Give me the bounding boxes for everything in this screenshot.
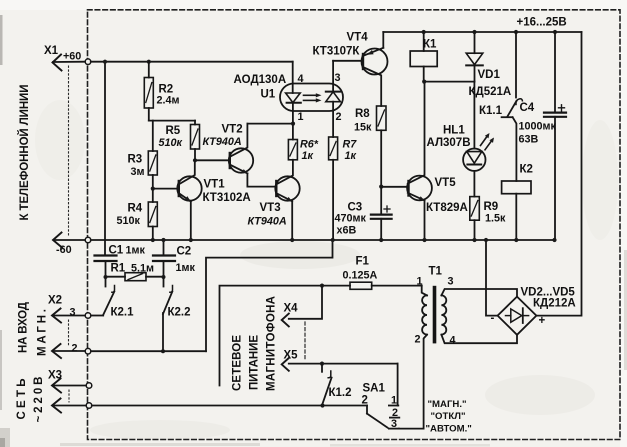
capacitor C2 top lead bbox=[163, 240, 165, 255]
node C4 on rail end bbox=[552, 238, 556, 242]
svg-text:X4: X4 bbox=[284, 303, 299, 315]
diode VD1 bottom lead bbox=[474, 65, 476, 81]
wire riser X2.2 to common bbox=[206, 240, 333, 351]
resistor R6* body bbox=[288, 140, 297, 160]
resistor R2 top lead bbox=[148, 62, 150, 78]
wire K1 to VD1/HL1 bbox=[424, 81, 474, 83]
switch SA1 common pin2 tick bbox=[366, 406, 368, 414]
resistor R7 bottom lead bbox=[332, 160, 334, 240]
resistor R1 body bbox=[125, 273, 146, 281]
svg-text:VT1: VT1 bbox=[204, 179, 226, 191]
transistor VT5 emitter bbox=[408, 193, 425, 201]
connector X1 pin -60 arrow bbox=[53, 233, 62, 248]
transformer T1 secondary winding bbox=[441, 295, 446, 334]
svg-text:510к: 510к bbox=[117, 215, 141, 227]
svg-text:R4: R4 bbox=[128, 203, 143, 215]
resistor R3 top lead bbox=[152, 121, 154, 151]
svg-text:К ТЕЛЕФОННОЙ ЛИНИИ: К ТЕЛЕФОННОЙ ЛИНИИ bbox=[18, 85, 31, 221]
svg-text:С2: С2 bbox=[177, 246, 192, 258]
relay contact K1.1 bottom tick bbox=[502, 116, 513, 118]
relay contact K2.2 fixed hook bbox=[170, 286, 173, 293]
node VT5 emitter on rail bbox=[422, 238, 426, 242]
optocoupler U1 pin2 lead bbox=[332, 102, 334, 137]
svg-text:4: 4 bbox=[298, 73, 304, 85]
resistor R3 body bbox=[148, 151, 157, 175]
svg-text:R9: R9 bbox=[484, 201, 499, 213]
transistor VT3 emitter bbox=[277, 193, 292, 201]
diode VD1 top lead bbox=[474, 32, 476, 53]
wire +60 rail bbox=[91, 61, 293, 63]
svg-text:КТ3102А: КТ3102А bbox=[203, 192, 251, 204]
node C4 top on +16 rail bbox=[553, 30, 557, 34]
connector X2 pin 2 arrow bbox=[52, 344, 61, 358]
svg-text:1мк: 1мк bbox=[126, 245, 146, 257]
svg-text:3: 3 bbox=[335, 72, 341, 84]
capacitor C4 plates bbox=[544, 111, 566, 113]
LED HL1 top lead bbox=[473, 82, 475, 149]
capacitor C3 polarity plus bbox=[384, 208, 390, 210]
resistor R2 bottom lead bbox=[148, 108, 150, 121]
svg-text:SA1: SA1 bbox=[363, 383, 386, 395]
svg-text:VT2: VT2 bbox=[222, 124, 243, 136]
svg-text:510к: 510к bbox=[159, 137, 183, 149]
node VT3 emitter on -60 rail bbox=[290, 238, 294, 242]
capacitor C4 top lead bbox=[554, 32, 556, 112]
relay contact K2.2 bottom lead bbox=[162, 313, 164, 351]
resistor R7 body bbox=[329, 137, 338, 160]
wire VT1 base bbox=[153, 188, 178, 190]
transformer T1 pin4 wire to bridge bbox=[441, 335, 517, 344]
node R5/VT1 collector/VT2 base bbox=[193, 158, 197, 162]
node VT1 emitter on -60 rail bbox=[189, 238, 193, 242]
transistor VT2 circle bbox=[229, 148, 253, 172]
svg-text:X1: X1 bbox=[44, 45, 59, 57]
svg-text:VT5: VT5 bbox=[435, 177, 457, 189]
resistor R8 body bbox=[377, 106, 387, 130]
svg-text:3: 3 bbox=[448, 276, 454, 288]
svg-text:С4: С4 bbox=[520, 102, 535, 114]
svg-text:15к: 15к bbox=[354, 122, 372, 134]
relay K2 bottom lead bbox=[515, 194, 517, 240]
cable dotted line X3 bbox=[68, 390, 70, 402]
svg-text:2.4м: 2.4м bbox=[157, 95, 180, 107]
svg-text:К2.2: К2.2 bbox=[168, 307, 191, 319]
node C3 on rail bbox=[379, 238, 383, 242]
svg-text:1к: 1к bbox=[345, 150, 357, 162]
svg-text:X3: X3 bbox=[48, 370, 62, 382]
resistor R1 right lead bbox=[146, 276, 164, 278]
transformer T1 pin2 lead bbox=[424, 335, 427, 429]
switch SA1 pin2 tick bbox=[390, 417, 399, 419]
node K2 on rail bbox=[514, 238, 518, 242]
svg-text:МАГН.: МАГН. bbox=[37, 309, 49, 356]
relay contact K1.2 fixed hook bbox=[328, 371, 331, 378]
wire X1 +60 to border bbox=[53, 61, 85, 63]
transistor VT2 collector bbox=[230, 124, 247, 157]
optocoupler U1 LED triangle bbox=[286, 93, 301, 103]
svg-text:R6*: R6* bbox=[300, 139, 319, 151]
svg-text:-: - bbox=[491, 313, 495, 325]
wire -60 rail bbox=[91, 239, 555, 241]
svg-text:х6В: х6В bbox=[337, 225, 357, 237]
svg-text:3м: 3м bbox=[131, 166, 145, 178]
terminal circle X1 -60 bbox=[85, 237, 91, 243]
LED HL1 cathode bar bbox=[467, 164, 481, 166]
svg-text:1000мк: 1000мк bbox=[519, 121, 557, 133]
optocoupler U1 photodiode triangle bbox=[326, 92, 341, 102]
transistor VT1 emitter bbox=[179, 194, 191, 202]
transistor VT5 circle bbox=[407, 176, 432, 201]
relay contact K1.1 top lead bbox=[515, 32, 517, 98]
wire X2.3 to K2.1 bbox=[91, 315, 104, 317]
wire VT2 collector to U1 pin1 bbox=[247, 123, 293, 125]
svg-text:Т1: Т1 bbox=[429, 266, 443, 278]
relay contact K2.1 movable arm bbox=[103, 292, 114, 316]
transistor VT2 base bar bbox=[229, 153, 231, 168]
svg-text:1.5к: 1.5к bbox=[485, 213, 506, 225]
fuse F1 body bbox=[350, 282, 372, 289]
relay contact K2.1 top lead bbox=[105, 277, 107, 287]
svg-text:НА ВХОД: НА ВХОД bbox=[18, 302, 30, 353]
svg-text:X5: X5 bbox=[284, 350, 299, 362]
bridge rectifier diode symbol bbox=[506, 315, 511, 317]
resistor R6* top lead bbox=[292, 124, 294, 140]
relay contact K1.1 fixed hook bbox=[516, 99, 522, 105]
node C2/R1/K2.2 junction bbox=[162, 275, 166, 279]
svg-text:U1: U1 bbox=[261, 89, 276, 101]
resistor R3 bottom lead bbox=[152, 175, 154, 202]
svg-text:63В: 63В bbox=[519, 134, 539, 146]
svg-text:К2.1: К2.1 bbox=[111, 307, 135, 319]
terminal circle X3 pin1 bbox=[86, 383, 92, 389]
svg-text:АЛ307В: АЛ307В bbox=[427, 137, 471, 149]
resistor R5 top lead bbox=[194, 121, 196, 125]
relay contact K2.1 fixed hook bbox=[112, 286, 115, 293]
svg-text:R3: R3 bbox=[128, 154, 143, 166]
wire bridge minus to rail bbox=[486, 240, 498, 316]
connector X3 pin 2 arrow bbox=[52, 399, 61, 413]
wire SA1 pin3 to T1 pin2 bbox=[399, 428, 424, 430]
connector X1 pin +60 arrow bbox=[53, 55, 62, 71]
svg-text:АОД130А: АОД130А bbox=[234, 74, 287, 86]
wire X2 pin2 run bbox=[91, 350, 207, 352]
svg-text:+: + bbox=[539, 315, 546, 327]
node R7 on -60 rail bbox=[331, 238, 335, 242]
svg-text:HL1: HL1 bbox=[443, 125, 465, 137]
svg-text:КД521А: КД521А bbox=[469, 86, 512, 98]
resistor R5 bottom lead bbox=[194, 149, 196, 160]
terminal circle X3 pin2 bbox=[86, 403, 92, 409]
node K1.1 top on +16 rail bbox=[514, 30, 518, 34]
resistor R1 left lead bbox=[106, 276, 126, 278]
node bridge minus on rail bbox=[484, 238, 488, 242]
transistor VT3 circle bbox=[275, 176, 299, 200]
transistor VT4 base bar bbox=[362, 54, 364, 69]
transistor VT5 base bar bbox=[407, 181, 409, 196]
svg-text:2: 2 bbox=[362, 395, 368, 407]
resistor R9 bottom lead bbox=[474, 220, 476, 240]
wire X4 branch bbox=[289, 286, 322, 319]
bridge rectifier VD2-VD5 diamond bbox=[498, 297, 537, 335]
transformer T1 primary winding bbox=[422, 295, 427, 334]
transformer T1 core bbox=[433, 286, 437, 344]
resistor R4 body bbox=[148, 202, 157, 227]
capacitor C2 plates bbox=[153, 254, 175, 256]
wire X2 pin2 bbox=[53, 350, 86, 352]
transistor VT3 collector bbox=[277, 160, 293, 184]
node K1.2 bottom on X3.2 wire bbox=[320, 403, 324, 407]
svg-text:3: 3 bbox=[391, 418, 397, 430]
node R8/VT5 base/C3 bbox=[379, 185, 383, 189]
wire X5 to SA1 pin1 bbox=[397, 364, 399, 406]
terminal circle X2 pin2 bbox=[85, 348, 91, 354]
node X4 branch on mains wire bbox=[320, 284, 324, 288]
optocoupler U1 body bbox=[280, 84, 343, 112]
wire fuse to T1 pin1 bbox=[372, 285, 422, 287]
capacitor C4 bottom lead bbox=[554, 117, 556, 240]
svg-text:МАГНИТОФОНА: МАГНИТОФОНА bbox=[266, 296, 278, 391]
relay contact K1.2 movable arm bbox=[323, 378, 332, 404]
cable dotted line X1 bbox=[68, 66, 70, 236]
node +60/C1 column bbox=[103, 60, 107, 64]
resistor R8 bottom lead bbox=[380, 130, 382, 186]
resistor R4 bottom lead bbox=[152, 227, 154, 241]
relay contact K1.1 movable arm bbox=[508, 101, 517, 116]
svg-text:КТ940А: КТ940А bbox=[203, 136, 242, 148]
wire X1 -60 to border bbox=[54, 239, 86, 241]
transistor VT1 circle bbox=[177, 176, 201, 200]
node R4 on -60 rail bbox=[151, 238, 155, 242]
node K1 top on +16 rail bbox=[422, 30, 426, 34]
relay contact K1.2 top lead bbox=[321, 364, 323, 372]
capacitor C3 plates bbox=[371, 214, 392, 216]
resistor R9 body bbox=[470, 197, 480, 221]
svg-text:К1.2: К1.2 bbox=[329, 387, 352, 399]
svg-text:R7: R7 bbox=[343, 139, 358, 151]
connector link dashed X4-X5 bbox=[304, 322, 306, 361]
capacitor C3 bottom lead bbox=[380, 219, 382, 240]
wire +16..25V rail bbox=[383, 31, 581, 33]
svg-text:1: 1 bbox=[417, 276, 423, 288]
wire R2/R3/R5 junction bbox=[149, 120, 195, 122]
node K2.2 on X2.2 wire bbox=[161, 349, 165, 353]
transistor VT3 base bar bbox=[275, 181, 277, 196]
svg-text:0.125А: 0.125А bbox=[343, 270, 378, 282]
optocoupler U1 LED cathode bar bbox=[287, 102, 301, 104]
terminal circle X1 +60 bbox=[85, 59, 91, 65]
svg-text:+60: +60 bbox=[63, 51, 81, 63]
svg-text:R1: R1 bbox=[111, 263, 126, 275]
capacitor C4 polarity plus bbox=[559, 107, 565, 109]
relay K1 coil bbox=[410, 51, 437, 67]
svg-text:5.1м: 5.1м bbox=[131, 263, 154, 275]
transistor VT1 base bar bbox=[178, 181, 180, 196]
svg-text:ПИТАНИЕ: ПИТАНИЕ bbox=[249, 335, 261, 390]
svg-text:СЕТЕВОЕ: СЕТЕВОЕ bbox=[232, 335, 244, 391]
connector X3 pin 1 arrow bbox=[52, 379, 61, 393]
node K1.2 top bbox=[320, 362, 324, 366]
svg-text:КТ829А: КТ829А bbox=[426, 202, 468, 214]
svg-text:+16...25В: +16...25В bbox=[517, 17, 567, 29]
svg-text:R8: R8 bbox=[355, 108, 370, 120]
transistor VT2 emitter bbox=[230, 165, 247, 174]
transformer T1 pin1 lead bbox=[422, 286, 427, 296]
transistor VT5 collector bbox=[408, 82, 425, 184]
connector X5 arrow bbox=[282, 358, 289, 371]
node C1/R1/K2.1 junction bbox=[104, 275, 108, 279]
wire +16 rail right bus down to bridge bbox=[536, 32, 581, 316]
svg-text:R5: R5 bbox=[166, 125, 181, 137]
resistor R5 body bbox=[191, 125, 200, 150]
svg-text:X2: X2 bbox=[48, 295, 62, 307]
node R9 on rail bbox=[472, 238, 476, 242]
svg-text:1мк: 1мк bbox=[176, 262, 196, 274]
LED HL1 bottom lead bbox=[473, 171, 475, 197]
resistor R2 body bbox=[144, 78, 153, 109]
optocoupler U1 pin4 lead bbox=[292, 62, 294, 93]
svg-text:2: 2 bbox=[336, 111, 342, 123]
wire VT5 base bbox=[381, 186, 407, 188]
svg-text:1: 1 bbox=[298, 111, 304, 123]
wire VT2 base bbox=[195, 159, 229, 161]
svg-text:"АВТОМ.": "АВТОМ." bbox=[426, 424, 472, 435]
svg-text:К1: К1 bbox=[423, 39, 437, 51]
capacitor C1 bottom lead bbox=[105, 261, 107, 277]
relay contact K1.1 bottom lead bbox=[513, 117, 517, 181]
wire X2 pin3 bbox=[53, 315, 86, 317]
LED HL1 circle bbox=[463, 149, 485, 171]
diode VD1 cathode bar bbox=[466, 64, 483, 66]
svg-text:VD1: VD1 bbox=[478, 69, 501, 81]
node U1 pin1 junction bbox=[291, 122, 295, 126]
wire X3 pin1 bbox=[53, 385, 87, 387]
svg-text:"ОТКЛ": "ОТКЛ" bbox=[431, 411, 466, 422]
switch SA1 pin1 tick bbox=[389, 405, 398, 407]
relay contact K2.2 top lead bbox=[163, 277, 165, 287]
optocoupler U1 light arrows bbox=[304, 94, 318, 96]
node VD1 top on +16 rail bbox=[472, 30, 476, 34]
LED HL1 triangle bbox=[467, 152, 482, 164]
wire U1 pin3 to VT4 base bbox=[333, 60, 362, 62]
capacitor C2 bottom lead bbox=[163, 261, 165, 277]
svg-text:-60: -60 bbox=[56, 244, 72, 256]
wire X5 run bbox=[289, 363, 398, 365]
node R3/R4/VT1 base bbox=[151, 187, 155, 191]
svg-text:1к: 1к bbox=[302, 150, 314, 162]
LED HL1 emission arrows bbox=[481, 135, 489, 146]
terminal circle X2 pin3 bbox=[85, 313, 91, 319]
transistor VT4 collector bbox=[363, 67, 381, 106]
node +60/R2 bbox=[147, 60, 151, 64]
svg-text:КД212А: КД212А bbox=[533, 298, 576, 310]
svg-text:F1: F1 bbox=[356, 256, 370, 268]
optocoupler U1 photodiode bar bbox=[326, 91, 341, 93]
node K1/VT5 collector junction bbox=[422, 80, 426, 84]
relay K1 top lead bbox=[423, 32, 425, 51]
svg-text:2: 2 bbox=[72, 343, 78, 355]
wire X3 pin2 bbox=[53, 405, 87, 407]
relay contact K2.2 movable arm bbox=[163, 292, 172, 314]
svg-text:1: 1 bbox=[391, 395, 397, 407]
transistor VT1 collector bbox=[179, 160, 195, 184]
svg-text:КТ3107К: КТ3107К bbox=[313, 46, 361, 58]
capacitor C1 plates bbox=[95, 254, 117, 256]
svg-text:2: 2 bbox=[415, 334, 421, 346]
svg-text:470мк: 470мк bbox=[335, 213, 367, 225]
svg-text:К2: К2 bbox=[520, 164, 533, 176]
diode VD1 triangle bbox=[466, 53, 483, 64]
wire X3.2 run to SA1 bbox=[92, 405, 367, 407]
optocoupler U1 pin1 lead bbox=[292, 103, 294, 124]
capacitor C1 top lead (from +60 line, crosses -60 rail) bbox=[104, 62, 106, 256]
svg-text:С1: С1 bbox=[109, 245, 124, 257]
switch SA1 pin3 tick bbox=[389, 428, 399, 430]
svg-text:К1.1: К1.1 bbox=[479, 105, 503, 117]
transistor VT4 emitter (to +16V) bbox=[363, 48, 384, 56]
connector X4 arrow bbox=[282, 314, 289, 327]
transformer T1 pin3 wire to bridge bbox=[441, 289, 517, 296]
transistor VT4 circle bbox=[362, 49, 388, 75]
connector X2 pin 3 arrow bbox=[52, 309, 61, 323]
svg-text:КТ940А: КТ940А bbox=[248, 216, 287, 228]
optocoupler U1 pin3 lead bbox=[332, 61, 334, 92]
switch SA1 arm bbox=[367, 414, 388, 428]
svg-text:VT4: VT4 bbox=[347, 32, 369, 44]
svg-text:"МАГН.": "МАГН." bbox=[428, 399, 467, 410]
svg-text:VT3: VT3 bbox=[260, 202, 281, 214]
cable dotted line X2 bbox=[68, 320, 70, 347]
svg-text:4: 4 bbox=[450, 335, 456, 347]
svg-text:3: 3 bbox=[70, 307, 76, 319]
relay K1 bottom lead bbox=[423, 67, 425, 82]
node C2 on -60 rail bbox=[161, 238, 165, 242]
capacitor C3 top lead bbox=[380, 187, 382, 215]
wire X3.1 riser to fuse bbox=[220, 286, 351, 386]
relay K2 coil bbox=[502, 181, 531, 194]
